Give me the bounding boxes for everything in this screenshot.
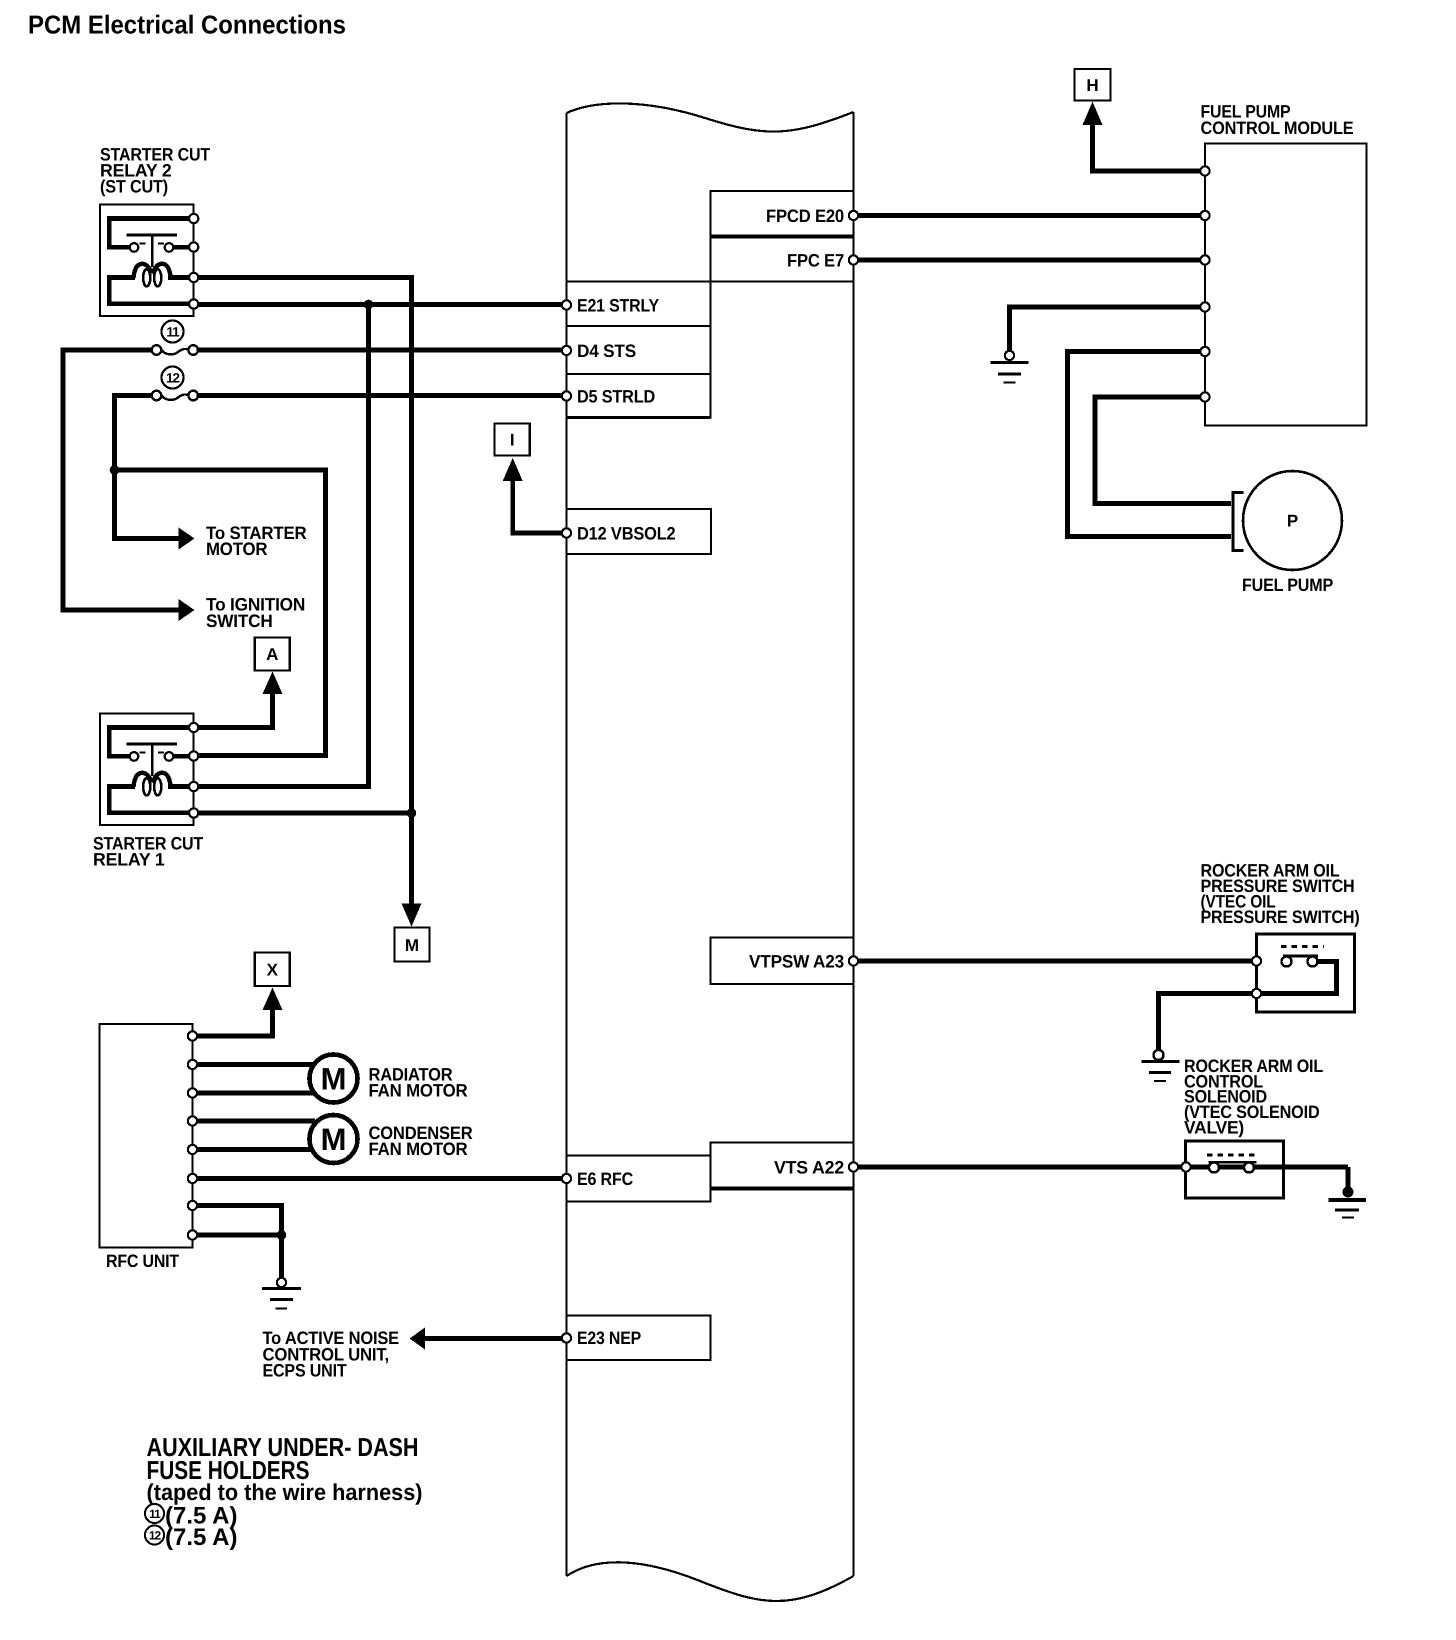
PCM connector band right edge — [853, 112, 855, 1576]
rocker arm oil control solenoid (VTEC solenoid valve) — [1181, 1141, 1348, 1198]
svg-text:FAN MOTOR: FAN MOTOR — [369, 1081, 468, 1101]
wire RFC T6 to E6 RFC — [197, 1176, 567, 1181]
PCM connector band torn top edge — [567, 103, 854, 131]
D12 VBSOL2 terminal pin — [562, 528, 571, 537]
connector A box — [255, 637, 290, 670]
D4 STS terminal pin — [562, 346, 571, 355]
svg-text:D12 VBSOL2: D12 VBSOL2 — [577, 524, 676, 544]
svg-text:12: 12 — [166, 370, 180, 385]
fuel pump P — [1243, 471, 1342, 570]
connector X box — [255, 953, 290, 987]
connector I box — [495, 423, 530, 455]
wire FPC E7 to module — [854, 258, 1206, 263]
wire solenoid to ground — [1346, 1167, 1351, 1188]
fuel pump bracket — [1233, 493, 1244, 551]
svg-text:VTS A22: VTS A22 — [774, 1158, 844, 1178]
svg-text:M: M — [405, 936, 419, 955]
svg-text:VTPSW A23: VTPSW A23 — [749, 952, 844, 972]
svg-text:12: 12 — [149, 1529, 162, 1543]
svg-text:SWITCH: SWITCH — [206, 611, 273, 631]
E23 NEP terminal pin — [562, 1333, 571, 1342]
wire E23 NEP to active noise arrow — [423, 1336, 567, 1341]
label rocker arm oil pressure switch — [1201, 861, 1360, 928]
wire RFC T3 to radiator fan motor — [197, 1091, 315, 1096]
svg-text:H: H — [1086, 76, 1098, 95]
fuel pump control module terminal pins — [1200, 166, 1209, 401]
svg-text:A: A — [266, 645, 278, 664]
fuse 11 wire left — [63, 350, 187, 610]
svg-text:I: I — [510, 431, 515, 450]
svg-text:FPCD E20: FPCD E20 — [766, 206, 844, 226]
arrow to ignition switch — [179, 599, 195, 621]
arrow into A — [263, 672, 283, 695]
wire branch down to relay1 T3 — [197, 305, 369, 787]
svg-text:E6 RFC: E6 RFC — [577, 1169, 633, 1189]
wire RFC T5 to condenser fan motor — [197, 1147, 315, 1152]
connector M box — [395, 928, 430, 962]
wire module T4 to ground — [1010, 307, 1206, 351]
wire pressure switch to ground — [1159, 994, 1253, 1051]
node junction RFC T7/T8 — [277, 1230, 287, 1240]
wire module T5 to fuel pump — [1068, 352, 1232, 537]
svg-text:D5 STRLD: D5 STRLD — [577, 387, 655, 407]
E6 RFC terminal pin — [562, 1174, 571, 1183]
wire relay1 T2 up to fuse12 branch — [115, 470, 326, 756]
svg-text:PRESSURE SWITCH): PRESSURE SWITCH) — [1201, 907, 1360, 927]
ground fuel pump control module — [991, 351, 1029, 383]
wire relay2 T3 down to M connector arrow — [194, 278, 412, 907]
RFC unit box — [100, 1024, 193, 1248]
svg-text:M: M — [321, 1122, 347, 1157]
connector H box — [1075, 69, 1111, 101]
svg-text:PCM Electrical Connections: PCM Electrical Connections — [28, 10, 346, 40]
arrow into X — [263, 988, 283, 1011]
label rocker arm oil control solenoid — [1184, 1056, 1323, 1138]
svg-text:FPC E7: FPC E7 — [787, 251, 844, 271]
svg-text:(ST CUT): (ST CUT) — [100, 177, 168, 197]
rocker arm oil pressure switch (VTEC oil pressure switch) — [1252, 934, 1355, 1012]
svg-text:D4 STS: D4 STS — [577, 341, 636, 361]
svg-text:ECPS UNIT: ECPS UNIT — [263, 1361, 347, 1381]
svg-text:E21 STRLY: E21 STRLY — [577, 296, 659, 316]
svg-text:11: 11 — [166, 324, 180, 339]
fuse 12 element — [152, 391, 198, 401]
wire VTPSW A23 to pressure switch — [854, 959, 1257, 964]
fuse 12 wire left — [115, 396, 188, 539]
connector box E23 NEP — [567, 1316, 711, 1361]
svg-text:11: 11 — [149, 1507, 161, 1521]
wire relay1 T4 to vertical — [194, 811, 412, 816]
svg-text:CONTROL MODULE: CONTROL MODULE — [1201, 118, 1354, 138]
connector box FPCD E20 — [711, 191, 854, 237]
svg-text:P: P — [1287, 512, 1298, 531]
wire module T6 to fuel pump — [1095, 397, 1231, 504]
arrow into M — [402, 904, 422, 927]
connector box E21 STRLY — [567, 282, 711, 327]
wire RFC T8 to junction — [197, 1233, 282, 1238]
label circled 11 fuse — [162, 321, 184, 343]
motor condenser fan — [310, 1115, 358, 1163]
connector box D4 STS — [567, 326, 711, 374]
svg-text:RELAY 1: RELAY 1 — [93, 850, 165, 870]
svg-text:MOTOR: MOTOR — [206, 539, 267, 559]
motor radiator fan — [310, 1055, 358, 1103]
connector box VTS A22 — [711, 1143, 854, 1189]
relay starter cut relay 1 — [100, 714, 198, 826]
wire FPCD E20 to module — [854, 213, 1206, 218]
svg-text:E23 NEP: E23 NEP — [577, 1328, 641, 1348]
relay starter cut relay 2 — [100, 205, 198, 317]
arrow into H — [1083, 102, 1103, 126]
svg-text:VALVE): VALVE) — [1184, 1118, 1244, 1138]
connector box E6 RFC — [567, 1156, 711, 1202]
wire RFC T1 to X arrow — [193, 1002, 273, 1036]
VTS A22 terminal pin — [849, 1162, 858, 1171]
ground RFC unit — [262, 1278, 301, 1309]
wire relay1 T1 to A connector arrow — [194, 677, 273, 728]
label auxiliary under-dash fuse holders — [147, 1432, 423, 1505]
svg-text:RFC UNIT: RFC UNIT — [106, 1251, 179, 1271]
E21 STRLY terminal pin — [562, 300, 571, 309]
svg-text:(7.5 A): (7.5 A) — [165, 1524, 237, 1551]
svg-text:FUEL PUMP: FUEL PUMP — [1242, 575, 1333, 595]
arrow into I — [503, 458, 523, 481]
label circled 12 rating — [145, 1524, 237, 1551]
connector box D5 STRLD — [567, 374, 711, 418]
svg-text:M: M — [321, 1062, 347, 1097]
node junction relay2-T4 wire x relay1-T3 branch — [364, 300, 374, 310]
D5 STRLD terminal pin — [562, 391, 571, 400]
FPC E7 terminal pin — [849, 255, 858, 264]
svg-text:(taped to the wire harness): (taped to the wire harness) — [147, 1479, 423, 1505]
svg-text:FAN MOTOR: FAN MOTOR — [369, 1139, 468, 1159]
fuse 11 element — [152, 345, 198, 355]
fuel pump control module box — [1205, 144, 1367, 426]
wire relay2 T4 to E21 STRLY — [194, 302, 567, 307]
node junction relay1-T4 wire x M vertical — [407, 808, 417, 818]
wire RFC T4 to condenser fan motor — [197, 1119, 315, 1124]
ground solenoid — [1329, 1187, 1367, 1218]
ground pressure switch — [1142, 1050, 1180, 1081]
FPCD E20 terminal pin — [849, 211, 858, 220]
PCM connector band left edge — [566, 113, 568, 1576]
wire RFC T7 to ground — [197, 1206, 282, 1279]
wire D12 VBSOL2 to I — [513, 472, 567, 533]
label circled 12 fuse — [162, 367, 184, 389]
connector box VTPSW A23 — [711, 938, 854, 985]
connector box FPC E7 — [711, 237, 854, 282]
wire RFC T2 to radiator fan motor — [197, 1062, 315, 1067]
arrow to active noise control unit — [410, 1328, 426, 1350]
RFC terminal pins — [188, 1031, 197, 1239]
arrow to starter motor — [179, 528, 195, 550]
svg-text:X: X — [267, 961, 279, 980]
fuse 12 wire right to D5 STRLD — [198, 393, 567, 398]
fuse 11 wire right to D4 STS — [198, 348, 567, 353]
wire fuel pump control module T1 to H — [1093, 116, 1206, 171]
wire VTS A22 to solenoid — [854, 1165, 1186, 1170]
connector box D12 VBSOL2 — [567, 509, 712, 554]
VTPSW A23 terminal pin — [849, 956, 858, 965]
label circled 11 rating — [145, 1503, 237, 1530]
PCM connector band torn bottom edge — [567, 1562, 854, 1601]
node junction fuse12 vertical x relay1-T2 branch — [110, 465, 120, 475]
